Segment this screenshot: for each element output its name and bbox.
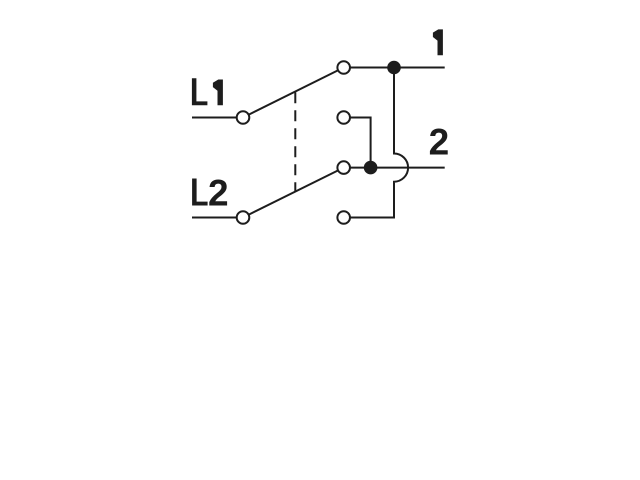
svg-text:2: 2 <box>429 121 450 162</box>
svg-text:2: 2 <box>208 173 229 214</box>
